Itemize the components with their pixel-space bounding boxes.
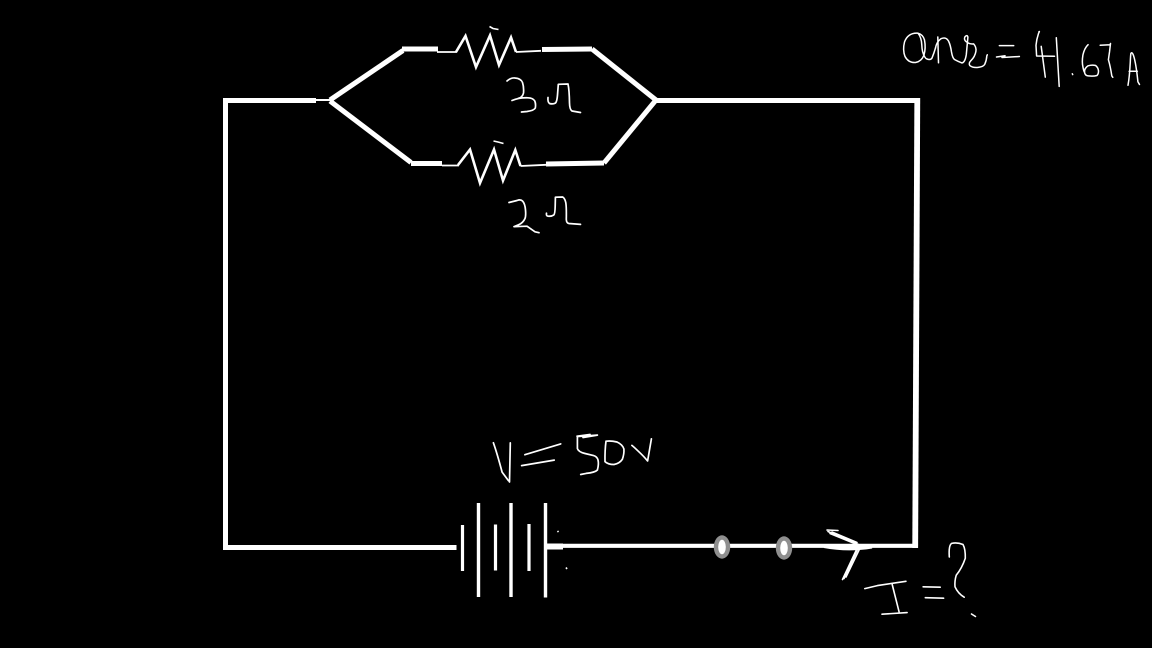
battery V1 plate short 1	[461, 525, 464, 571]
current arrow	[827, 530, 861, 580]
wire: top-right horizontal	[656, 98, 918, 103]
wire: bottom-right horizontal	[560, 544, 918, 548]
terminal dot 1	[714, 535, 730, 558]
battery V1 plate long 2	[509, 503, 512, 597]
node A (left junction)	[314, 99, 331, 101]
resistor R1 (3 ohm) zigzag	[456, 36, 516, 68]
battery V1 plate long 1	[477, 503, 480, 597]
terminal dot 2	[776, 536, 792, 559]
wire: lower-right diagonal	[604, 100, 656, 163]
wire: bottom-left horizontal	[223, 545, 457, 550]
wire: top-left horizontal	[223, 98, 316, 103]
wire: slight bulge under arrow	[824, 547, 872, 549]
wire: lower-left diagonal	[330, 101, 411, 163]
wire: upper branch lead-out	[516, 51, 541, 52]
wire: lower branch lead-in	[411, 161, 442, 166]
label: ans = 41.67 A	[904, 31, 1140, 86]
wire: left vertical	[223, 98, 228, 549]
battery V1 plate short 2	[494, 525, 497, 571]
speck near battery terminal	[558, 531, 559, 532]
wire: upper-left diagonal	[330, 51, 403, 101]
label: 2 ohm value	[509, 197, 581, 233]
wire: lower branch lead-out	[521, 165, 547, 166]
wire: upper branch lead-in	[402, 47, 438, 52]
wire: right vertical	[915, 98, 917, 548]
node B (right junction)	[653, 99, 660, 103]
resistor R2 (2 ohm) zigzag	[458, 150, 521, 184]
label: I = ?	[865, 543, 976, 617]
stray tick above R2	[494, 141, 504, 144]
battery V1 plate short 3	[527, 524, 530, 571]
label: V = 50 V	[493, 435, 651, 483]
label: 3 ohm value	[507, 78, 581, 113]
wire: upper-right diagonal	[592, 49, 656, 100]
battery V1 plate long 3	[544, 503, 547, 598]
wire: battery output stub	[546, 544, 563, 550]
speck below battery stub	[566, 568, 567, 570]
stray tick above R1	[490, 27, 499, 30]
